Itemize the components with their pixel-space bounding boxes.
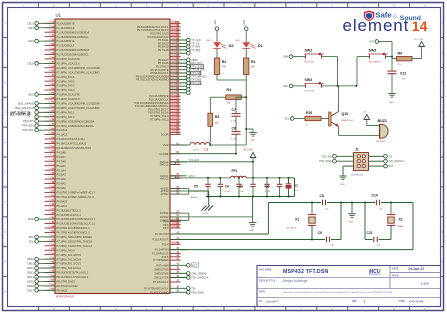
svg-text:DB11: DB11 bbox=[28, 262, 35, 266]
svg-text:C: C bbox=[84, 4, 86, 8]
svg-text:RST: RST bbox=[370, 42, 375, 44]
svg-text:B: B bbox=[53, 4, 55, 8]
svg-text:TIME:: TIME: bbox=[399, 300, 406, 303]
svg-text:P4.2/ACLK/TA2CLK/A11: P4.2/ACLK/TA2CLK/A11 bbox=[57, 137, 86, 141]
svg-text:P4.6/A7: P4.6/A7 bbox=[57, 155, 67, 159]
svg-text:GND: GND bbox=[250, 140, 255, 142]
svg-text:P5.7/TA2.2/VREF-/VeREF-/C1.6: P5.7/TA2.2/VREF-/VeREF-/C1.6 bbox=[57, 195, 95, 199]
svg-text:AGND: AGND bbox=[203, 212, 209, 215]
svg-text:MCU: MCU bbox=[369, 269, 381, 275]
svg-text:SWB: SWB bbox=[283, 57, 289, 59]
svg-text:SunnyA/T: SunnyA/T bbox=[266, 299, 279, 303]
svg-text:P6.1/A14: P6.1/A14 bbox=[57, 204, 68, 208]
svg-text:P8.0/UCB3STE/TA1.0/C0.1: P8.0/UCB3STE/TA1.0/C0.1 bbox=[57, 271, 89, 275]
svg-text:K: K bbox=[331, 4, 333, 8]
svg-text:P9.6: P9.6 bbox=[163, 226, 169, 230]
svg-text:RST: RST bbox=[389, 166, 394, 168]
svg-text:C8: C8 bbox=[320, 194, 324, 198]
svg-text:P5.4/A1: P5.4/A1 bbox=[57, 182, 67, 186]
svg-text:P6.6/TA2.3/UCB3SIMO/C1.1: P6.6/TA2.3/UCB3SIMO/C1.1 bbox=[57, 226, 91, 230]
svg-text:BUTTON: BUTTON bbox=[305, 91, 314, 93]
svg-text:MSP432 TFT.DSN: MSP432 TFT.DSN bbox=[283, 269, 329, 275]
svg-text:TCK_SWDCLK: TCK_SWDCLK bbox=[389, 161, 405, 163]
svg-text:P1.3/UCB0SOMI/UCB0SCL: P1.3/UCB0SOMI/UCB0SCL bbox=[57, 35, 90, 39]
svg-text:D1: D1 bbox=[258, 43, 264, 48]
svg-text:P2.5/PM_TA0.2: P2.5/PM_TA0.2 bbox=[57, 79, 76, 83]
svg-text:P7.1/TA0CLK: P7.1/TA0CLK bbox=[153, 280, 169, 284]
svg-text:DB13: DB13 bbox=[27, 271, 34, 275]
svg-text:P1.1/UCB0CLK: P1.1/UCB0CLK bbox=[57, 26, 75, 30]
svg-text:PJ.4/TDI/ADC14CLK: PJ.4/TDI/ADC14CLK bbox=[144, 286, 168, 290]
svg-text:PPG-SDA: PPG-SDA bbox=[22, 124, 34, 128]
svg-text:P8.3/TA3CLK/A22: P8.3/TA3CLK/A22 bbox=[57, 284, 79, 288]
svg-text:P1.7/UCB0SOMI/UCB0SCL: P1.7/UCB0SOMI/UCB0SCL bbox=[57, 53, 90, 57]
svg-text:C12: C12 bbox=[400, 72, 406, 76]
svg-text:(32.768kHz: (32.768kHz bbox=[286, 228, 297, 230]
svg-text:P6.3/UCB1CLK/C1.4: P6.3/UCB1CLK/C1.4 bbox=[57, 213, 82, 217]
svg-text:REV:: REV: bbox=[352, 300, 358, 303]
svg-text:P5.6/TA2.1/VREF+/VeREF+/C1.7: P5.6/TA2.1/VREF+/VeREF+/C1.7 bbox=[57, 191, 96, 195]
svg-text:P8.2/TA3.2/A23: P8.2/TA3.2/A23 bbox=[57, 280, 76, 284]
svg-text:P2.1/PM_UCA1CLK: P2.1/PM_UCA1CLK bbox=[57, 61, 81, 65]
svg-text:PPG-INT: PPG-INT bbox=[23, 119, 34, 123]
svg-text:R2: R2 bbox=[222, 60, 227, 64]
svg-text:SW1: SW1 bbox=[28, 26, 34, 30]
svg-text:SWC: SWC bbox=[283, 86, 289, 88]
svg-text:P4.7/A6: P4.7/A6 bbox=[57, 159, 67, 163]
svg-text:DB12: DB12 bbox=[27, 266, 34, 270]
svg-text:AVSS3: AVSS3 bbox=[160, 192, 169, 196]
svg-text:P8.1/UCB3CLK/TA2.0/C0.0: P8.1/UCB3CLK/TA2.0/C0.0 bbox=[57, 275, 89, 279]
svg-text:P9.7/UCA3TXD/UCA3SIMO: P9.7/UCA3TXD/UCA3SIMO bbox=[136, 78, 168, 82]
svg-text:LED1: LED1 bbox=[214, 19, 217, 26]
svg-text:A: A bbox=[22, 307, 24, 311]
svg-text:P7.4/PM_TA1.4/C0.5: P7.4/PM_TA1.4/C0.5 bbox=[57, 253, 82, 257]
svg-text:P3.3/PM_UCA2TXD/PM_UCA2SIMO: P3.3/PM_UCA2TXD/PM_UCA2SIMO bbox=[57, 106, 100, 110]
svg-text:P7.6/PM_TA1.2/C0.3: P7.6/PM_TA1.2/C0.3 bbox=[57, 262, 82, 266]
svg-text:D: D bbox=[115, 307, 117, 311]
svg-text:P2.2/PM_UCA1RXD/PM_UCA1SOMI: P2.2/PM_UCA1RXD/PM_UCA1SOMI bbox=[57, 66, 101, 70]
svg-text:C5: C5 bbox=[194, 185, 198, 189]
svg-text:P3.2/PM_UCA2RXD/PM_UCA2SOMI: P3.2/PM_UCA2RXD/PM_UCA2SOMI bbox=[57, 102, 101, 106]
svg-text:P5.5/A0: P5.5/A0 bbox=[57, 186, 67, 190]
svg-text:R26: R26 bbox=[306, 111, 312, 115]
svg-text:CORTEX-D6: CORTEX-D6 bbox=[351, 174, 364, 176]
svg-text:C3: C3 bbox=[239, 185, 243, 189]
svg-text:element: element bbox=[343, 16, 410, 35]
svg-text:C9: C9 bbox=[318, 231, 322, 235]
svg-text:VSW: VSW bbox=[163, 143, 169, 147]
svg-text:P2.4/PM_TA0.1: P2.4/PM_TA0.1 bbox=[57, 75, 76, 79]
svg-text:U1: U1 bbox=[56, 13, 62, 18]
svg-text:RSTn/NMI: RSTn/NMI bbox=[156, 263, 168, 267]
svg-text:P3.6/PM_UCB2SIMO/UCB2SDA: P3.6/PM_UCB2SIMO/UCB2SDA bbox=[57, 119, 95, 123]
svg-text:VCORE: VCORE bbox=[159, 152, 168, 156]
svg-text:H: H bbox=[239, 4, 241, 8]
svg-text:P3.7/PM_UCB2SOMI/UCB2SCL: P3.7/PM_UCB2SOMI/UCB2SCL bbox=[57, 124, 95, 128]
svg-text:BLE_SWAKE: BLE_SWAKE bbox=[18, 101, 34, 105]
svg-text:P5.7/A18: P5.7/A18 bbox=[158, 48, 169, 52]
svg-text:DATE:: DATE: bbox=[392, 268, 399, 271]
svg-text:P8.4/A21: P8.4/A21 bbox=[57, 288, 68, 292]
svg-text:6:40:39 PM: 6:40:39 PM bbox=[409, 299, 424, 303]
svg-text:P6.0/A15: P6.0/A15 bbox=[57, 199, 68, 203]
svg-text:DVSS2: DVSS2 bbox=[160, 215, 169, 219]
svg-text:GND: GND bbox=[349, 222, 354, 224]
svg-text:GND: GND bbox=[389, 102, 394, 104]
svg-text:P2.7/PM_TA0.4: P2.7/PM_TA0.4 bbox=[57, 88, 76, 92]
svg-text:SW1: SW1 bbox=[305, 49, 313, 53]
svg-text:BUZ1: BUZ1 bbox=[378, 119, 387, 123]
svg-text:P4.1/A12: P4.1/A12 bbox=[57, 133, 68, 137]
svg-text:C7: C7 bbox=[232, 108, 236, 112]
svg-text:P2.3/PM_UCA1TXD/PM_UCA1SIMO: P2.3/PM_UCA1TXD/PM_UCA1SIMO bbox=[57, 70, 100, 74]
svg-text:J1: J1 bbox=[355, 148, 359, 152]
svg-text:C11: C11 bbox=[367, 231, 373, 235]
svg-text:PAGE:: PAGE: bbox=[392, 274, 399, 277]
svg-text:D: D bbox=[115, 4, 117, 8]
svg-text:P2.0/PM_UCA1STE: P2.0/PM_UCA1STE bbox=[57, 57, 81, 61]
svg-text:0.1uF: 0.1uF bbox=[225, 191, 231, 193]
svg-text:G: G bbox=[208, 307, 210, 311]
svg-text:Design challenge: Design challenge bbox=[283, 279, 308, 283]
svg-text:P10.4: P10.4 bbox=[162, 242, 169, 246]
svg-text:N: N bbox=[424, 4, 426, 8]
svg-text:TDI: TDI bbox=[389, 156, 393, 158]
svg-text:P1.4/UCB0STE: P1.4/UCB0STE bbox=[57, 39, 75, 43]
svg-text:SW2: SW2 bbox=[305, 78, 313, 82]
svg-text:P3.4/PM_TA1.1: P3.4/PM_TA1.1 bbox=[57, 110, 76, 114]
svg-text:0.1uF: 0.1uF bbox=[265, 191, 271, 193]
svg-text:SW2: SW2 bbox=[28, 39, 34, 43]
svg-text:4.7uH: 4.7uH bbox=[193, 150, 199, 152]
svg-text:SW_RESET: SW_RESET bbox=[369, 61, 382, 63]
svg-text:FP1: FP1 bbox=[232, 169, 238, 173]
svg-text:P1.2/UCB0SIMO/UCB0SDA: P1.2/UCB0SIMO/UCB0SDA bbox=[57, 30, 90, 34]
svg-text:DB16: DB16 bbox=[27, 284, 34, 288]
svg-text:M: M bbox=[393, 4, 395, 8]
svg-text:P4.0/A13: P4.0/A13 bbox=[57, 128, 68, 132]
svg-text:TMS_SWDIO: TMS_SWDIO bbox=[319, 161, 333, 163]
svg-text:TCK_SWDCLK: TCK_SWDCLK bbox=[191, 277, 208, 280]
svg-text:PJ.0/LFXIN: PJ.0/LFXIN bbox=[155, 232, 168, 236]
svg-text:BY:: BY: bbox=[259, 300, 263, 303]
svg-text:DVSS1: DVSS1 bbox=[160, 211, 169, 215]
svg-text:TMS_SWDIO: TMS_SWDIO bbox=[191, 272, 206, 275]
svg-text:TP_IRQ: TP_IRQ bbox=[191, 49, 200, 52]
svg-text:FILE NAME:: FILE NAME: bbox=[259, 268, 273, 271]
svg-text:MMBT3904: MMBT3904 bbox=[342, 120, 354, 122]
svg-text:K: K bbox=[331, 307, 333, 311]
svg-text:DB14: DB14 bbox=[27, 275, 34, 279]
svg-text:P7.1/PM_C0OUT/PM_TA0CLK: P7.1/PM_C0OUT/PM_TA0CLK bbox=[57, 239, 93, 243]
svg-text:+5V: +5V bbox=[363, 111, 367, 113]
svg-text:BUZ: BUZ bbox=[29, 93, 35, 97]
svg-text:TDO_SWO: TDO_SWO bbox=[191, 291, 204, 294]
svg-text:PJ.3/HFXIN: PJ.3/HFXIN bbox=[155, 248, 169, 252]
svg-text:R4: R4 bbox=[227, 88, 232, 92]
svg-text:TDO_SWO: TDO_SWO bbox=[321, 156, 333, 158]
svg-text:N: N bbox=[424, 307, 426, 311]
svg-text:P5.1/A4: P5.1/A4 bbox=[57, 168, 67, 172]
svg-text:X2: X2 bbox=[399, 218, 403, 222]
svg-text:P7.7/PM_TA1.1/C0.2: P7.7/PM_TA1.1/C0.2 bbox=[57, 266, 82, 270]
svg-text:C: C bbox=[84, 307, 86, 311]
svg-text:PJ.1/LFXOUT: PJ.1/LFXOUT bbox=[152, 238, 169, 242]
svg-text:G: G bbox=[208, 4, 210, 8]
svg-text:H: H bbox=[239, 307, 241, 311]
svg-text:P5.2/A3: P5.2/A3 bbox=[57, 173, 67, 177]
svg-text:BLE_DATA/SLP: BLE_DATA/SLP bbox=[15, 106, 34, 110]
svg-text:P6.5/UCB1SOMI/UCB1SCL/C1.2: P6.5/UCB1SOMI/UCB1SCL/C1.2 bbox=[57, 222, 96, 226]
svg-text:VCC+3V3: VCC+3V3 bbox=[189, 160, 200, 162]
svg-text:SWDIOTMS: SWDIOTMS bbox=[154, 267, 169, 271]
svg-text:M: M bbox=[393, 307, 395, 311]
svg-text:X1: X1 bbox=[295, 217, 299, 221]
svg-text:SCL: SCL bbox=[29, 239, 35, 243]
svg-text:\\SharedDrive\element14\Design: \\SharedDrive\element14\Design challenge… bbox=[283, 291, 393, 294]
svg-text:P4.5/A8: P4.5/A8 bbox=[57, 150, 67, 154]
svg-text:LED_2: LED_2 bbox=[206, 40, 213, 42]
svg-text:DCOR: DCOR bbox=[161, 133, 169, 137]
svg-text:48MHz: 48MHz bbox=[398, 226, 405, 228]
svg-text:DB17: DB17 bbox=[27, 288, 34, 292]
svg-text:SDA: SDA bbox=[28, 235, 34, 239]
svg-text:BUTTON: BUTTON bbox=[305, 61, 314, 63]
svg-text:13-Jun-17: 13-Jun-17 bbox=[408, 267, 424, 271]
svg-text:P6.2/UCB1STE/C1.5: P6.2/UCB1STE/C1.5 bbox=[57, 208, 82, 212]
svg-text:P7.0/DMAE0: P7.0/DMAE0 bbox=[154, 258, 170, 262]
svg-text:P3.0/PM_UCA2STE: P3.0/PM_UCA2STE bbox=[57, 93, 81, 97]
svg-text:P2.6/PM_TA0.3: P2.6/PM_TA0.3 bbox=[57, 84, 76, 88]
svg-text:PJ.5/TDO/SWO: PJ.5/TDO/SWO bbox=[150, 290, 168, 294]
svg-text:D2: D2 bbox=[229, 43, 235, 48]
svg-text:P7.3/PM_TA0.0: P7.3/PM_TA0.0 bbox=[57, 248, 76, 252]
svg-text:WSP: WSP bbox=[28, 217, 34, 221]
svg-text:P1.5/UCB0CLK: P1.5/UCB0CLK bbox=[57, 44, 75, 48]
svg-text:P4.4/HSMCLK/SVMHOUT/A9: P4.4/HSMCLK/SVMHOUT/A9 bbox=[57, 146, 92, 150]
svg-text:0.1uF: 0.1uF bbox=[239, 191, 245, 193]
svg-text:VCC+3V3: VCC+3V3 bbox=[414, 39, 424, 41]
svg-text:P6.4/UCB1SIMO/UCB1SDA/C1.3: P6.4/UCB1SIMO/UCB1SDA/C1.3 bbox=[57, 217, 96, 221]
svg-text:GND: GND bbox=[340, 184, 345, 186]
svg-text:P6.7/TA2.4/UCB3SOMI/C1.0: P6.7/TA2.4/UCB3SOMI/C1.0 bbox=[57, 231, 91, 235]
svg-text:BUZ: BUZ bbox=[285, 119, 290, 121]
svg-text:P7.2/PM_C1OUT/PM_TA1CLK: P7.2/PM_C1OUT/PM_TA1CLK bbox=[57, 244, 93, 248]
svg-text:SWDIOTMS: SWDIOTMS bbox=[154, 272, 169, 276]
svg-text:SW3: SW3 bbox=[369, 49, 377, 53]
svg-text:1 of 5: 1 of 5 bbox=[421, 281, 429, 285]
svg-text:BUZZER: BUZZER bbox=[376, 141, 385, 143]
svg-text:VCC+3V3: VCC+3V3 bbox=[243, 149, 254, 151]
svg-text:Q10: Q10 bbox=[342, 112, 349, 116]
svg-text:GND: GND bbox=[249, 230, 254, 232]
svg-text:R0: R0 bbox=[398, 51, 403, 55]
svg-text:P7.5/PM_TA1.3/C0.4: P7.5/PM_TA1.3/C0.4 bbox=[57, 257, 82, 261]
svg-text:P3.5/PM_TA1.2: P3.5/PM_TA1.2 bbox=[57, 115, 76, 119]
svg-text:DB15: DB15 bbox=[27, 279, 34, 283]
svg-text:MSP432P401R: MSP432P401R bbox=[56, 295, 74, 299]
svg-text:14: 14 bbox=[412, 18, 428, 34]
svg-text:B: B bbox=[53, 307, 55, 311]
svg-text:P5.3/A2: P5.3/A2 bbox=[57, 177, 67, 181]
svg-text:DESIGN TITLE:: DESIGN TITLE: bbox=[259, 279, 276, 282]
svg-text:DB10: DB10 bbox=[27, 257, 34, 261]
svg-text:PPG-SCL: PPG-SCL bbox=[22, 128, 34, 132]
svg-text:C4: C4 bbox=[225, 185, 229, 189]
svg-text:LED2: LED2 bbox=[27, 61, 34, 65]
svg-text:RST: RST bbox=[192, 264, 197, 267]
svg-text:E: E bbox=[146, 307, 148, 311]
svg-text:AVCC: AVCC bbox=[189, 175, 196, 178]
svg-text:SWCLKTCK: SWCLKTCK bbox=[154, 276, 169, 280]
svg-text:AVCC2: AVCC2 bbox=[160, 176, 169, 180]
svg-text:LED_1: LED_1 bbox=[235, 40, 242, 42]
svg-text:P4.3/MCLK/RTCCLK/A10: P4.3/MCLK/RTCCLK/A10 bbox=[57, 142, 87, 146]
svg-text:P7.6/PM_TA1.2: P7.6/PM_TA1.2 bbox=[150, 117, 169, 121]
svg-text:P1.6/UCB0SIMO/UCB0SDA: P1.6/UCB0SIMO/UCB0SDA bbox=[57, 48, 90, 52]
svg-text:DVCC2: DVCC2 bbox=[160, 163, 169, 167]
svg-text:P5.0/A5: P5.0/A5 bbox=[57, 164, 67, 168]
svg-text:TDI: TDI bbox=[191, 287, 195, 290]
svg-text:P7.0/PM_SMCLK/PM_DMAE0: P7.0/PM_SMCLK/PM_DMAE0 bbox=[57, 235, 93, 239]
svg-text:R3: R3 bbox=[215, 115, 220, 119]
svg-text:PATH:: PATH: bbox=[259, 291, 266, 294]
svg-text:L1: L1 bbox=[205, 148, 209, 152]
svg-text:C10: C10 bbox=[372, 194, 378, 198]
svg-text:LED2: LED2 bbox=[243, 19, 246, 26]
svg-text:A: A bbox=[22, 4, 24, 8]
svg-text:E: E bbox=[146, 4, 148, 8]
svg-text:R1: R1 bbox=[251, 60, 256, 64]
svg-text:C2: C2 bbox=[265, 185, 269, 189]
svg-text:P1.0/UCB0STE: P1.0/UCB0STE bbox=[57, 21, 75, 25]
svg-text:AGND: AGND bbox=[191, 196, 198, 199]
svg-text:LED1: LED1 bbox=[27, 21, 34, 25]
svg-text:C6: C6 bbox=[232, 126, 236, 130]
svg-text:P3.1/PM_UCA2CLK: P3.1/PM_UCA2CLK bbox=[57, 97, 81, 101]
